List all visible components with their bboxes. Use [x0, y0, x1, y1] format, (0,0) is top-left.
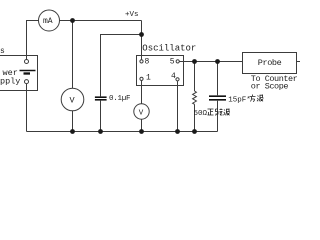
svg-text:Probe: Probe: [258, 58, 282, 68]
svg-text:s: s: [0, 47, 5, 56]
svg-text:15pF*: 15pF*: [228, 96, 251, 104]
svg-text:1: 1: [146, 74, 151, 83]
svg-text:+Vs: +Vs: [125, 11, 139, 19]
svg-text:0.1µF: 0.1µF: [109, 95, 130, 103]
svg-text:or Scope: or Scope: [251, 82, 289, 92]
svg-text:50Ω: 50Ω: [194, 110, 208, 118]
svg-text:V: V: [139, 109, 144, 117]
svg-text:mA: mA: [43, 17, 53, 26]
svg-text:V: V: [70, 96, 76, 106]
svg-text:8: 8: [145, 58, 150, 67]
svg-text:pply: pply: [0, 77, 20, 87]
svg-text:Oscillator: Oscillator: [142, 44, 196, 54]
svg-text:4: 4: [171, 72, 176, 81]
svg-text:5: 5: [170, 58, 175, 67]
